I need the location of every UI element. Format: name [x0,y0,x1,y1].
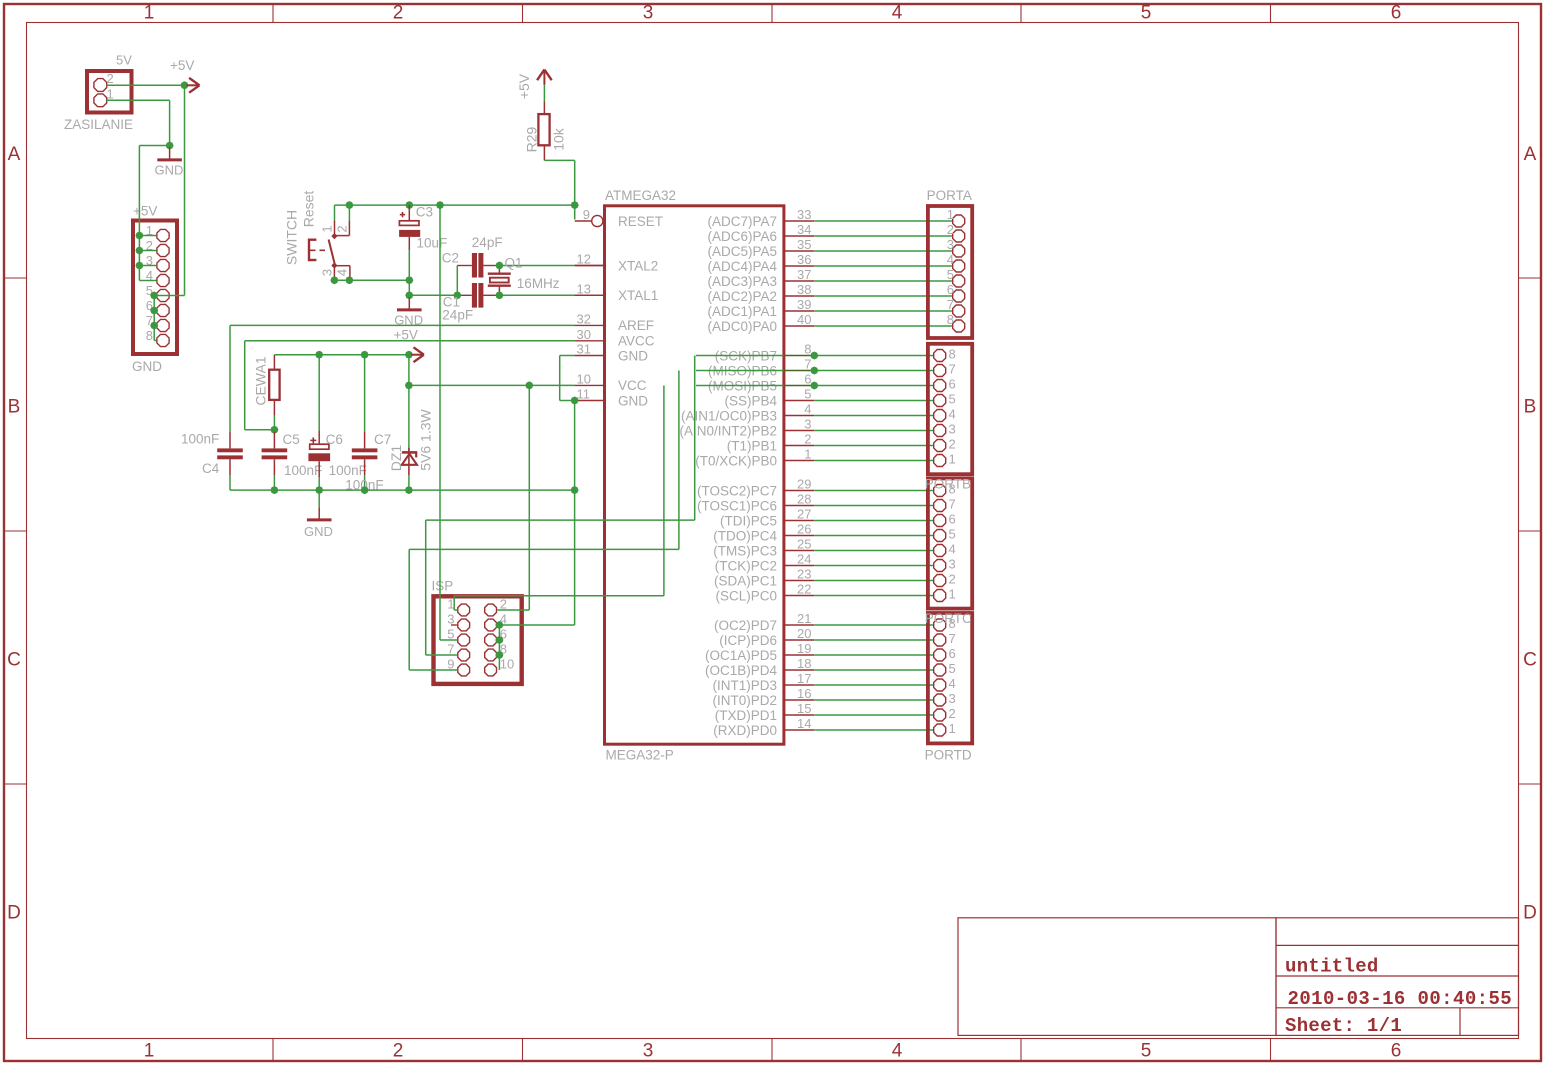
svg-text:Reset: Reset [301,191,317,228]
svg-text:C7: C7 [374,432,391,447]
ground symbol GND (top) [155,146,184,178]
svg-text:Sheet: 1/1: Sheet: 1/1 [1285,1015,1402,1037]
svg-text:C3: C3 [416,205,433,220]
svg-text:4: 4 [892,3,903,24]
svg-text:39: 39 [797,297,811,312]
pin XTAL1 (13) [575,281,659,303]
svg-text:15: 15 [797,701,811,716]
inductor CEWA1 [253,355,280,430]
svg-text:C2: C2 [442,251,459,266]
svg-text:33: 33 [797,207,811,222]
wire GND to C1/C2 left plates [409,266,472,296]
svg-text:1: 1 [949,587,956,602]
junction C3/switch GND [405,276,413,284]
svg-text:2010-03-16 00:40:55: 2010-03-16 00:40:55 [1288,988,1513,1010]
svg-text:(TXD)PD1: (TXD)PD1 [715,708,777,723]
svg-text:24: 24 [797,552,811,567]
svg-text:5V6 1.3W: 5V6 1.3W [417,408,433,470]
svg-text:20: 20 [797,626,811,641]
pin XTAL2 (12) [575,252,659,274]
connector ISP [432,579,522,684]
pin names PORTB side [679,348,777,468]
svg-text:GND: GND [618,348,648,363]
svg-text:40: 40 [797,312,811,327]
svg-text:6: 6 [949,377,956,392]
wire XTAL2 net [483,265,603,267]
connector PORTA [927,188,973,338]
svg-text:(T1)PB1: (T1)PB1 [727,438,777,453]
junctions PB7 PB6 PB5 [810,352,818,390]
svg-text:7: 7 [949,362,956,377]
svg-text:VCC: VCC [618,378,647,393]
wire MOSI ISP pin1 to PB5 [454,386,664,611]
junction AVCC/CEWA1/C5 [270,426,278,434]
svg-text:3: 3 [320,269,335,276]
svg-text:C6: C6 [326,432,343,447]
svg-text:(TDI)PC5: (TDI)PC5 [720,513,777,528]
svg-text:+5V: +5V [133,204,157,219]
svg-text:(TOSC2)PC7: (TOSC2)PC7 [697,483,777,498]
svg-text:4: 4 [947,252,954,267]
svg-text:21: 21 [797,611,811,626]
junction +5V node [181,81,189,89]
connector 8-pin header [132,204,177,375]
svg-text:C: C [1523,650,1537,671]
svg-text:D: D [1523,903,1537,924]
svg-text:11: 11 [577,387,591,402]
svg-text:100nF: 100nF [284,463,322,478]
svg-text:14: 14 [797,716,811,731]
wires PORTC PC0-PC7 [783,477,934,597]
svg-text:6: 6 [947,282,954,297]
junctions +5V rail [315,351,413,359]
connector PORTC (pins 8-1) [925,477,973,609]
svg-text:18: 18 [797,656,811,671]
svg-text:(ADC4)PA4: (ADC4)PA4 [707,259,777,274]
svg-text:RESET: RESET [618,214,663,229]
svg-text:13: 13 [577,281,591,296]
svg-text:(OC1A)PD5: (OC1A)PD5 [705,648,777,663]
svg-text:(ICP)PD6: (ICP)PD6 [719,633,777,648]
svg-text:(INT0)PD2: (INT0)PD2 [712,693,777,708]
svg-text:5: 5 [1141,3,1152,24]
svg-text:(ADC3)PA3: (ADC3)PA3 [707,274,777,289]
svg-text:4: 4 [949,542,956,557]
svg-text:1: 1 [447,597,454,612]
svg-text:(TOSC1)PC6: (TOSC1)PC6 [697,498,777,513]
capacitor C2 24pF [442,235,503,278]
connector ZASILANIE (power input) [64,53,133,133]
svg-text:PORTA: PORTA [927,188,972,203]
svg-text:8: 8 [146,328,153,343]
svg-text:4: 4 [804,402,811,417]
svg-text:24pF: 24pF [442,308,473,323]
wire AVCC net [245,327,575,429]
svg-text:(ADC5)PA5: (ADC5)PA5 [707,244,777,259]
wire ISP GND bus pins 4-10 [498,625,500,670]
svg-text:3: 3 [949,422,956,437]
svg-text:XTAL2: XTAL2 [618,258,658,273]
switch SWITCH Reset [284,191,350,279]
wire VCC to ISP pin2 [497,385,529,610]
svg-text:9: 9 [583,207,590,222]
wire GND pin31 to pin11 [560,356,575,401]
svg-text:10: 10 [577,371,591,386]
junction GND below C3 [405,291,413,299]
svg-text:(TDO)PC4: (TDO)PC4 [713,528,777,543]
svg-text:2: 2 [393,1041,404,1062]
svg-text:3: 3 [949,557,956,572]
svg-text:31: 31 [577,342,591,357]
svg-text:PORTB: PORTB [925,477,971,492]
svg-text:(RXD)PD0: (RXD)PD0 [713,723,777,738]
svg-text:(ADC0)PA0: (ADC0)PA0 [707,319,777,334]
wire +5V down to header pin5 [154,85,184,340]
svg-text:35: 35 [797,237,811,252]
svg-text:3: 3 [447,612,454,627]
capacitor C5 100nF [262,430,323,490]
svg-text:1: 1 [107,87,114,102]
capacitor C1 24pF [442,283,483,323]
wire RESET net top rail [335,205,575,221]
wires PORTB PB0-PB7 [696,342,933,462]
svg-text:GND: GND [132,359,162,374]
svg-text:2: 2 [335,225,350,232]
crystal Q1 16MHz [488,256,560,296]
wire GND bottom rail [230,489,575,491]
svg-text:10k: 10k [551,127,567,151]
wire GND to ISP pin4 [499,490,574,625]
svg-text:29: 29 [797,477,811,492]
svg-text:5: 5 [804,387,811,402]
junction GND pin11 [571,397,579,405]
svg-text:A: A [1524,144,1537,165]
svg-text:GND: GND [304,524,333,539]
svg-text:3: 3 [643,3,654,24]
junctions RESET rail [345,201,578,209]
svg-text:10: 10 [500,657,514,672]
svg-text:+5V: +5V [170,58,194,73]
resistor R29 10k [524,85,567,161]
svg-text:DZ1: DZ1 [388,445,404,472]
wire MISO ISP pin9 to PB6 [409,371,679,671]
svg-text:36: 36 [797,252,811,267]
svg-text:38: 38 [797,282,811,297]
svg-text:4: 4 [892,1041,903,1062]
svg-text:3: 3 [804,417,811,432]
wire RESET to ISP pin5 [440,205,457,640]
svg-text:4: 4 [949,407,956,422]
svg-text:PORTD: PORTD [925,748,972,763]
svg-text:4: 4 [949,676,956,691]
wire GND bus to header pins 1-4 [139,146,169,281]
pin VCC (10) [575,371,647,393]
wire +5V rail to AVCC filter [274,354,409,356]
svg-text:1: 1 [320,225,335,232]
junction crystal bottom [495,291,503,299]
svg-text:19: 19 [797,641,811,656]
svg-text:B: B [1524,397,1537,418]
svg-text:D: D [7,903,21,924]
wire GND from ZASILANIE pin1 [107,100,170,145]
svg-text:32: 32 [577,311,591,326]
pin names PORTD side [705,618,778,738]
svg-text:1: 1 [144,3,155,24]
svg-text:37: 37 [797,267,811,282]
+5V supply symbol (up arrow) at R29 [516,70,552,100]
svg-text:5: 5 [949,392,956,407]
svg-text:7: 7 [947,297,954,312]
svg-text:22: 22 [797,582,811,597]
svg-text:(SS)PB4: (SS)PB4 [724,393,777,408]
svg-text:2: 2 [393,3,404,24]
svg-text:R29: R29 [524,126,540,152]
wire SCK ISP pin7 to PB7 [426,356,695,656]
svg-text:3: 3 [949,691,956,706]
svg-text:5: 5 [1141,1041,1152,1062]
svg-text:34: 34 [797,222,811,237]
wire XTAL1 net [483,294,603,296]
svg-text:2: 2 [949,706,956,721]
capacitor C4 100nF [181,432,243,491]
svg-text:7: 7 [804,357,811,372]
pin GND (31) [575,342,649,364]
+5V supply symbol (right arrow) [170,58,200,93]
svg-text:AREF: AREF [618,318,654,333]
wires PORTA PA0-PA7 [783,207,953,327]
svg-text:B: B [8,397,21,418]
svg-text:(INT1)PD3: (INT1)PD3 [712,678,777,693]
svg-text:XTAL1: XTAL1 [618,288,658,303]
svg-text:ZASILANIE: ZASILANIE [64,117,133,132]
svg-text:1: 1 [949,452,956,467]
pin AVCC (30) [575,327,655,349]
connector PORTB (pins 8-1) [928,344,972,474]
svg-text:8: 8 [949,347,956,362]
junction VCC line at DZ1 [405,381,413,389]
svg-text:GND: GND [618,393,648,408]
svg-text:2: 2 [947,222,954,237]
svg-text:untitled: untitled [1285,956,1379,978]
svg-text:100nF: 100nF [181,432,219,447]
pin names PORTC side [697,483,778,603]
wire R29 to RESET pin [544,160,574,219]
svg-text:(ADC1)PA1: (ADC1)PA1 [707,304,777,319]
junction crystal top [495,262,503,270]
svg-text:8: 8 [947,312,954,327]
wire +5V from ZASILANIE pin2 [107,84,185,86]
svg-text:1: 1 [804,447,811,462]
pin names PORTA side [707,214,777,334]
svg-text:AVCC: AVCC [618,334,655,349]
svg-text:24pF: 24pF [472,235,503,250]
svg-text:10uF: 10uF [417,236,448,251]
junction VCC to ISP [525,381,533,389]
+5V supply symbol (right arrow) mid [411,347,424,362]
junctions header pins 5-7 [150,292,158,330]
ground symbol GND (rail) [304,490,333,539]
svg-text:(SCL)PC0: (SCL)PC0 [715,588,777,603]
title block [958,918,1519,1037]
svg-text:5V: 5V [116,53,132,68]
wire C3 minus to GND [408,250,410,295]
svg-text:GND: GND [155,163,184,178]
wire +5V to VCC pin and DZ1 [409,355,575,452]
svg-text:(OC2)PD7: (OC2)PD7 [714,618,777,633]
svg-text:PORTC: PORTC [925,611,972,626]
wire GND pin11 down to rail [574,401,576,491]
wires PORTD PD0-PD7 [783,611,934,731]
svg-text:6: 6 [949,512,956,527]
svg-text:1: 1 [144,1041,155,1062]
svg-text:SWITCH: SWITCH [284,210,300,265]
svg-text:26: 26 [797,522,811,537]
svg-text:Q1: Q1 [505,256,523,271]
svg-text:16MHz: 16MHz [517,276,560,291]
svg-text:ATMEGA32: ATMEGA32 [605,188,676,203]
junctions GND rail [270,486,578,494]
svg-text:3: 3 [947,237,954,252]
svg-text:(SDA)PC1: (SDA)PC1 [714,573,777,588]
svg-text:+5V: +5V [516,73,532,99]
svg-text:6: 6 [804,372,811,387]
svg-text:5: 5 [947,267,954,282]
svg-text:1: 1 [947,207,954,222]
svg-text:ISP: ISP [432,579,454,594]
svg-text:30: 30 [577,327,591,342]
svg-text:8: 8 [804,342,811,357]
svg-text:7: 7 [949,497,956,512]
svg-text:3: 3 [643,1041,654,1062]
capacitor C3 10uF (polarized) [399,205,447,251]
junction GND node [166,142,174,150]
svg-text:7: 7 [949,631,956,646]
svg-text:(ADC7)PA7: (ADC7)PA7 [707,214,777,229]
wire AREF to GND net [230,325,575,431]
junctions header pins 1-3 [135,232,143,270]
junctions ISP GND bus [495,621,503,659]
svg-text:1: 1 [949,721,956,736]
pin GND (11) [575,387,649,409]
svg-text:28: 28 [797,492,811,507]
svg-text:C5: C5 [283,432,300,447]
svg-text:6: 6 [1391,3,1402,24]
connector PORTD (pins 8-1) [925,611,973,763]
svg-text:17: 17 [797,671,811,686]
svg-text:16: 16 [797,686,811,701]
svg-text:C4: C4 [202,461,220,476]
junction C2-C1 left [453,291,461,299]
junctions switch GND wire [330,276,353,284]
pin AREF (32) [575,311,654,333]
capacitor C7 100nF [345,355,391,493]
svg-text:23: 23 [797,567,811,582]
svg-text:2: 2 [949,437,956,452]
svg-text:(OC1B)PD4: (OC1B)PD4 [705,663,778,678]
svg-text:(T0/XCK)PB0: (T0/XCK)PB0 [695,453,777,468]
svg-text:(ADC2)PA2: (ADC2)PA2 [707,289,777,304]
svg-text:2: 2 [949,572,956,587]
ground symbol GND (below C3) [394,295,423,327]
svg-text:2: 2 [107,71,114,86]
svg-text:100nF: 100nF [329,463,367,478]
capacitor C6 100nF (polarized) [308,355,366,490]
svg-text:27: 27 [797,507,811,522]
op-amp U1 ATMEGA32 (MEGA32-P) body [605,188,784,763]
svg-text:+5V: +5V [394,327,418,342]
svg-text:(TMS)PC3: (TMS)PC3 [713,543,777,558]
svg-text:4: 4 [335,269,350,276]
svg-text:25: 25 [797,537,811,552]
svg-text:C: C [7,650,21,671]
svg-text:(ADC6)PA6: (ADC6)PA6 [707,229,777,244]
pin RESET (9) with inversion bubble [575,207,663,229]
svg-text:12: 12 [577,252,591,267]
svg-text:CEWA1: CEWA1 [253,356,269,405]
svg-text:(TCK)PC2: (TCK)PC2 [715,558,777,573]
wire switch to GND [334,279,409,280]
svg-text:5: 5 [949,527,956,542]
svg-text:6: 6 [949,646,956,661]
svg-text:6: 6 [1391,1041,1402,1062]
diode DZ1 zener 5V6 1.3W [388,408,434,490]
svg-text:5: 5 [949,661,956,676]
svg-text:2: 2 [804,432,811,447]
svg-text:MEGA32-P: MEGA32-P [606,748,674,763]
svg-text:A: A [8,144,21,165]
